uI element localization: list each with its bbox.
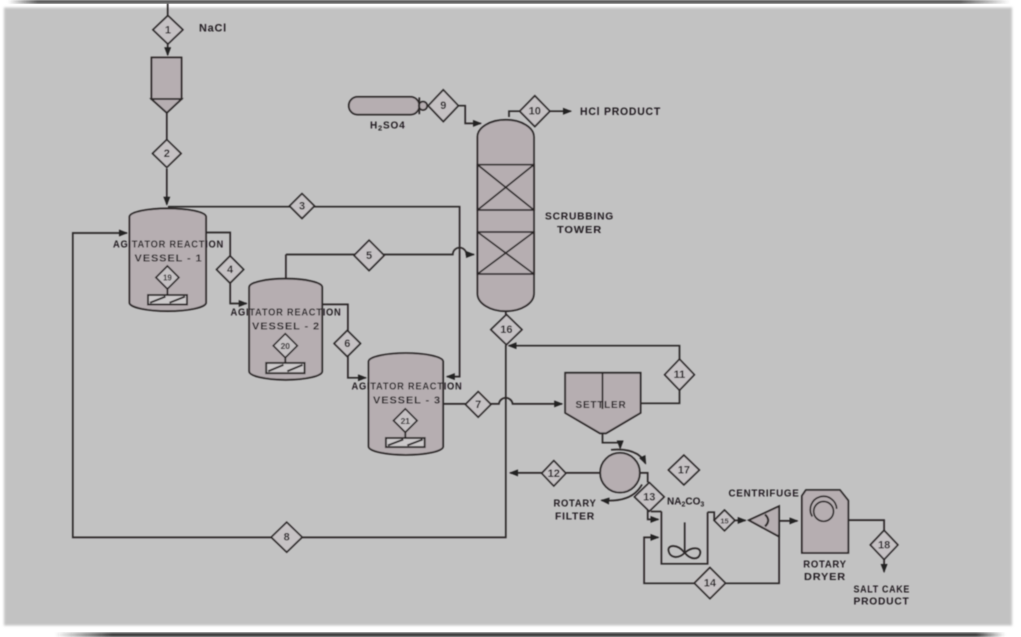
svg-text:12: 12 — [548, 468, 560, 480]
svg-text:6: 6 — [344, 338, 350, 350]
svg-text:2: 2 — [164, 148, 170, 160]
svg-text:VESSEL - 3: VESSEL - 3 — [373, 396, 441, 407]
svg-text:4: 4 — [227, 264, 234, 276]
svg-text:AGITATOR REACTION: AGITATOR REACTION — [352, 382, 463, 393]
svg-text:H2SO4: H2SO4 — [370, 121, 405, 133]
svg-text:15: 15 — [720, 516, 728, 525]
svg-text:VESSEL - 1: VESSEL - 1 — [135, 254, 203, 265]
svg-text:8: 8 — [284, 532, 290, 544]
svg-text:ROTARY: ROTARY — [554, 498, 597, 510]
svg-text:3: 3 — [299, 201, 305, 213]
svg-text:10: 10 — [529, 106, 541, 118]
svg-text:1: 1 — [165, 24, 171, 36]
svg-text:VESSEL - 2: VESSEL - 2 — [252, 322, 320, 333]
svg-text:21: 21 — [401, 416, 411, 426]
svg-text:HCl PRODUCT: HCl PRODUCT — [580, 106, 661, 118]
svg-text:PRODUCT: PRODUCT — [854, 596, 910, 608]
svg-text:FILTER: FILTER — [555, 511, 595, 523]
svg-text:SALT CAKE: SALT CAKE — [854, 584, 911, 596]
svg-text:9: 9 — [440, 100, 446, 112]
svg-text:TOWER: TOWER — [557, 224, 602, 236]
svg-text:NaCl: NaCl — [199, 23, 227, 35]
svg-text:13: 13 — [643, 491, 655, 503]
svg-text:17: 17 — [678, 465, 690, 477]
svg-text:NA2CO3: NA2CO3 — [667, 497, 704, 509]
svg-text:AGITATOR REACTION: AGITATOR REACTION — [113, 240, 224, 251]
svg-text:AGITATOR REACTION: AGITATOR REACTION — [231, 308, 342, 319]
svg-text:14: 14 — [704, 578, 717, 590]
svg-text:DRYER: DRYER — [804, 571, 846, 583]
svg-text:CENTRIFUGE: CENTRIFUGE — [729, 488, 800, 500]
svg-text:7: 7 — [475, 399, 481, 411]
svg-text:16: 16 — [500, 324, 512, 336]
svg-text:18: 18 — [878, 539, 890, 551]
svg-text:20: 20 — [281, 341, 291, 351]
svg-text:SETTLER: SETTLER — [576, 400, 627, 411]
svg-text:5: 5 — [366, 250, 372, 262]
svg-text:SCRUBBING: SCRUBBING — [545, 211, 614, 223]
svg-text:19: 19 — [163, 274, 172, 283]
svg-text:ROTARY: ROTARY — [803, 559, 847, 571]
svg-text:11: 11 — [674, 369, 686, 381]
